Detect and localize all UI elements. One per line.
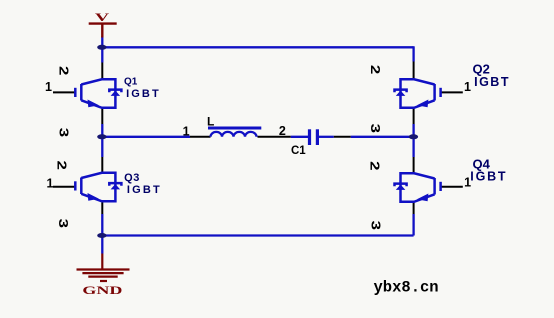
wire: left leg upper (V to Q1 collector) bbox=[101, 37, 103, 63]
svg-text:3: 3 bbox=[56, 219, 69, 228]
wire: mid node left to inductor pin 1 bbox=[102, 136, 190, 138]
svg-text:Q3: Q3 bbox=[124, 172, 140, 184]
pin: Q1 collector (pin 2) bbox=[101, 63, 103, 79]
power V symbol bbox=[89, 24, 117, 38]
svg-text:1: 1 bbox=[464, 80, 471, 94]
svg-text:1: 1 bbox=[183, 125, 190, 139]
wire: top rail V+ bbox=[102, 46, 413, 48]
pin: capacitor C1 right lead bbox=[334, 136, 351, 138]
ground symbol bbox=[77, 254, 130, 282]
svg-text:Q1: Q1 bbox=[124, 77, 138, 88]
pin: Q3 gate bbox=[53, 186, 75, 188]
inductor L core bar bbox=[208, 127, 261, 130]
wire: inductor pin2 to capacitor C1 left plate bbox=[291, 136, 308, 138]
svg-text:2: 2 bbox=[54, 161, 67, 170]
junction: V rail tap bbox=[97, 45, 106, 50]
pin: Q2 collector bbox=[413, 62, 415, 79]
pin: Q1 gate (pin 1) bbox=[53, 91, 75, 93]
svg-text:IGBT: IGBT bbox=[127, 184, 162, 196]
pin: Q4 collector bbox=[413, 157, 415, 173]
wire: right leg upper (rail to Q2 collector) bbox=[412, 46, 414, 61]
wire: capacitor right plate stub bbox=[319, 136, 334, 138]
pin: inductor L pin 1 lead bbox=[190, 136, 211, 138]
pin: Q1 emitter (pin 3) bbox=[101, 109, 103, 125]
pin: Q3 collector bbox=[101, 157, 103, 173]
transistor Q4 (IGBT, low side right, mirrored) bbox=[395, 173, 441, 202]
svg-text:2: 2 bbox=[368, 65, 381, 74]
svg-text:GND: GND bbox=[82, 284, 122, 297]
svg-text:1: 1 bbox=[45, 80, 52, 94]
svg-text:3: 3 bbox=[368, 124, 381, 133]
wire: to right mid node bbox=[351, 136, 414, 138]
svg-text:ybx8.cn: ybx8.cn bbox=[374, 279, 439, 297]
capacitor C1 plates bbox=[310, 129, 318, 145]
wire: right leg lower (Q4 emitter to bottom rail) bbox=[412, 214, 414, 236]
svg-text:3: 3 bbox=[56, 128, 69, 137]
transistor Q3 (IGBT, low side left) bbox=[75, 173, 121, 202]
svg-text:1: 1 bbox=[47, 177, 54, 191]
wire: right leg middle (Q2 emitter to Q4 collector) bbox=[412, 124, 414, 157]
svg-text:2: 2 bbox=[279, 124, 286, 138]
pin: Q4 emitter bbox=[413, 203, 415, 215]
junction: right mid node bbox=[409, 134, 418, 139]
wire: left leg middle (Q1 emitter to Q3 collector) bbox=[101, 124, 103, 157]
svg-text:V: V bbox=[95, 10, 110, 24]
inductor L body bbox=[211, 132, 257, 137]
svg-text:3: 3 bbox=[368, 221, 381, 230]
svg-text:2: 2 bbox=[367, 161, 380, 170]
svg-text:IGBT: IGBT bbox=[126, 88, 161, 100]
svg-text:IGBT: IGBT bbox=[470, 170, 507, 184]
pin: Q2 gate bbox=[441, 91, 462, 93]
pin: Q4 gate bbox=[441, 186, 462, 188]
pin: Q2 emitter bbox=[413, 109, 415, 125]
wire: bottom rail bbox=[102, 234, 413, 236]
transistor Q2 (IGBT, high side right, mirrored) bbox=[395, 79, 441, 108]
svg-text:C1: C1 bbox=[291, 145, 306, 157]
transistor Q1 (IGBT, high side left) bbox=[75, 79, 121, 108]
pin: Q3 emitter bbox=[101, 203, 103, 215]
svg-text:L: L bbox=[207, 114, 214, 128]
svg-text:2: 2 bbox=[56, 66, 69, 75]
pin: inductor L pin 2 lead bbox=[258, 136, 291, 138]
wire: left leg lower (Q3 emitter to bottom rail / GND) bbox=[101, 214, 103, 254]
svg-text:1: 1 bbox=[464, 176, 471, 190]
svg-text:IGBT: IGBT bbox=[474, 75, 510, 89]
junction: GND tap bbox=[97, 233, 106, 238]
junction: left mid node bbox=[97, 134, 106, 139]
